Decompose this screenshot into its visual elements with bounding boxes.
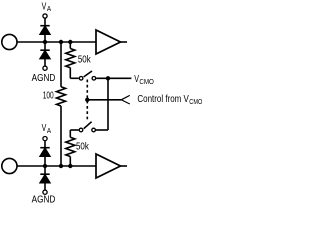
- svg-text:A: A: [47, 128, 52, 135]
- svg-text:50k: 50k: [78, 53, 91, 64]
- diode D4 (AGND to input, bottom): [40, 174, 50, 190]
- terminal VA (bottom): [43, 137, 47, 141]
- wire top main: [17, 41, 96, 43]
- input terminal T1 (top): [2, 34, 17, 49]
- op-amp U2 (bottom buffer): [96, 154, 121, 178]
- wire D4 top: [44, 166, 46, 174]
- label VCMO: [134, 73, 154, 86]
- svg-text:100: 100: [43, 89, 54, 101]
- diode D1 (input to VA): [40, 26, 50, 42]
- op-amp U1 (top buffer): [96, 30, 121, 54]
- wire U1 output: [121, 41, 128, 43]
- diode D2 (AGND to input): [40, 50, 50, 65]
- input terminal T2 (bottom): [2, 158, 17, 173]
- svg-text:V: V: [42, 0, 47, 12]
- svg-text:Control from V: Control from V: [137, 93, 188, 104]
- svg-text:CMO: CMO: [189, 98, 202, 106]
- wire S1 to VCMO node: [96, 77, 131, 79]
- terminal AGND (bottom): [43, 190, 47, 194]
- terminal VA (top): [43, 14, 47, 18]
- resistor R1 50k (top): [66, 42, 79, 78]
- control arrow: [121, 95, 130, 104]
- svg-text:50k: 50k: [76, 141, 89, 152]
- label VA (top): [42, 0, 52, 13]
- node dot bottom wire / D3-D4: [43, 164, 47, 168]
- wire VA to D1: [44, 19, 46, 26]
- control line: [87, 99, 121, 101]
- resistor R2 100 ohm vertical: [57, 42, 66, 166]
- svg-text:AGND: AGND: [32, 194, 56, 205]
- node dot bottom wire / 50k: [68, 164, 72, 168]
- svg-text:V: V: [42, 122, 47, 134]
- svg-text:A: A: [47, 6, 52, 13]
- node dot control/dashed: [85, 98, 89, 102]
- node dot top wire / 50k: [68, 40, 72, 44]
- svg-text:V: V: [134, 73, 139, 84]
- svg-text:AGND: AGND: [32, 72, 56, 83]
- terminal AGND (top): [43, 66, 47, 70]
- diode D3 (input to VA, bottom): [40, 148, 50, 166]
- wire VCMO node down to S2: [107, 78, 109, 130]
- svg-text:CMO: CMO: [139, 79, 154, 87]
- switch S1 (top): [79, 71, 95, 80]
- wire bottom main: [17, 165, 96, 167]
- wire VA to D3: [44, 141, 46, 147]
- wire S2 to vertical: [96, 129, 108, 131]
- node dot VCMO: [106, 76, 110, 80]
- dashed control linkage: [86, 80, 88, 122]
- node dot top wire / 100: [59, 40, 63, 44]
- resistor R3 50k (bottom): [66, 130, 79, 166]
- wire D2 top: [44, 42, 46, 50]
- label VA (bottom): [42, 122, 52, 135]
- label Control from VCMO: [137, 93, 202, 106]
- wire U2 output: [121, 165, 128, 167]
- switch S2 (bottom): [79, 122, 95, 132]
- node dot bottom wire / 100: [59, 164, 63, 168]
- node dot top wire / D1-D2: [43, 40, 47, 44]
